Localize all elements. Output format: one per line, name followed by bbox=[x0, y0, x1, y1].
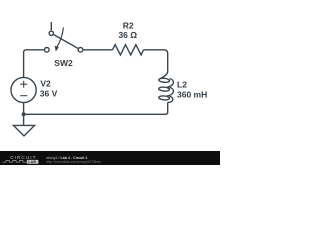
wire: V2 bottom to junction bbox=[23, 103, 25, 115]
svg-text:360 mH: 360 mH bbox=[177, 90, 207, 100]
ground bbox=[13, 114, 34, 136]
svg-text:36 Ω: 36 Ω bbox=[118, 30, 137, 40]
svg-text:SW2: SW2 bbox=[54, 58, 73, 68]
svg-text:V2: V2 bbox=[40, 78, 51, 88]
svg-text:36 V: 36 V bbox=[40, 89, 58, 99]
svg-text:R2: R2 bbox=[123, 20, 134, 30]
wire: resistor to inductor top (corner) bbox=[144, 50, 168, 72]
svg-text:L2: L2 bbox=[177, 79, 187, 89]
svg-text:http://circuitlab.com/cnqry527: http://circuitlab.com/cnqry527Bnkr bbox=[46, 160, 102, 164]
switch SW2 bbox=[45, 27, 83, 52]
footer bar bbox=[0, 151, 220, 165]
wire: switch right terminal to resistor bbox=[83, 49, 113, 51]
inductor L2 bbox=[159, 71, 174, 102]
wire: open stub above switch bbox=[50, 22, 52, 30]
wire: switch left terminal to V2 top (with corner) bbox=[24, 50, 45, 78]
junction node bbox=[22, 112, 26, 116]
resistor R2 bbox=[113, 45, 144, 55]
CircuitLab logo bbox=[3, 155, 39, 164]
svg-text:LAB: LAB bbox=[28, 160, 36, 164]
wire: inductor bottom to bottom rail (corner) bbox=[24, 103, 168, 115]
voltage source V2 bbox=[11, 77, 36, 102]
